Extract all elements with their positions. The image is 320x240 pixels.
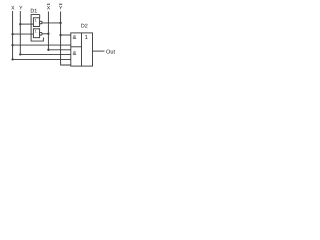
svg-text:&: & <box>73 50 77 57</box>
svg-text:Out: Out <box>106 49 115 55</box>
svg-text:X: X <box>47 6 51 12</box>
svg-text:D2: D2 <box>81 24 88 30</box>
svg-text:X: X <box>11 6 15 12</box>
svg-text:1: 1 <box>85 35 88 41</box>
svg-text:D1: D1 <box>30 8 37 14</box>
svg-text:Y: Y <box>19 6 23 12</box>
svg-text:1: 1 <box>35 29 37 33</box>
svg-text:&: & <box>73 34 77 41</box>
svg-text:1: 1 <box>35 19 37 23</box>
svg-text:Y: Y <box>59 6 63 12</box>
